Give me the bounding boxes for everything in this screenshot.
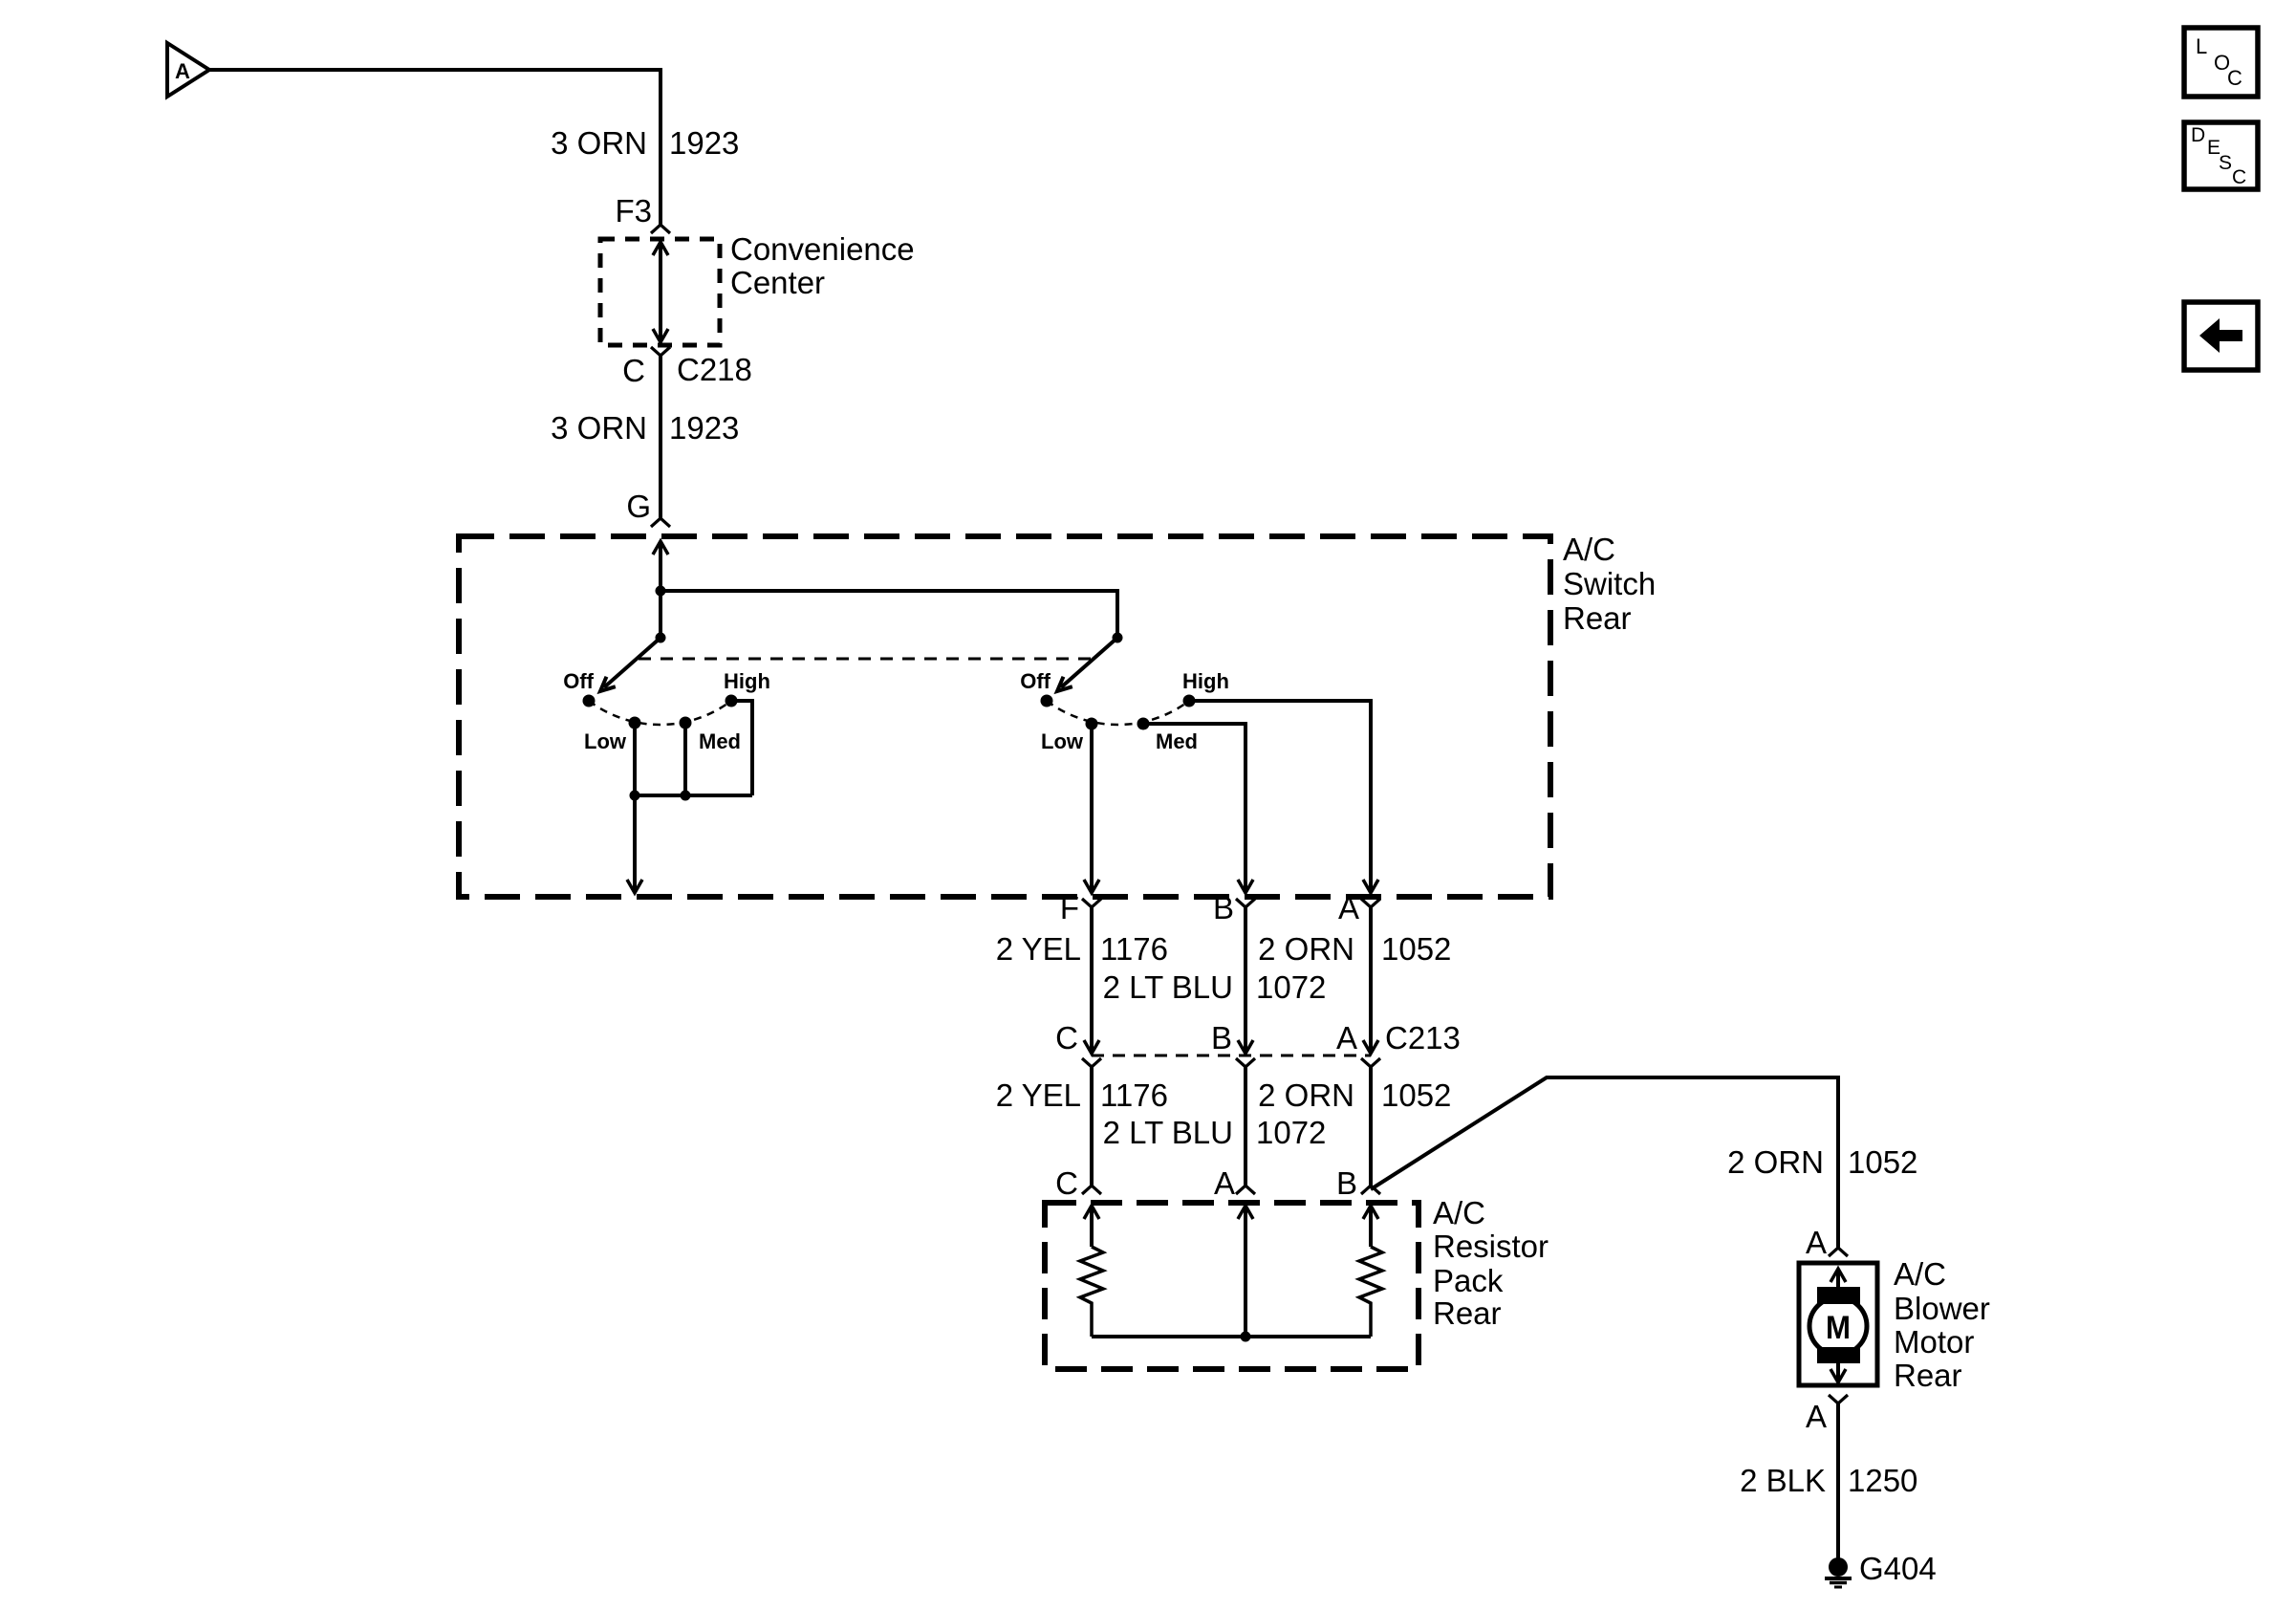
svg-text:1250: 1250: [1848, 1463, 1917, 1498]
svg-text:1052: 1052: [1848, 1144, 1917, 1180]
svg-text:1923: 1923: [669, 125, 739, 161]
svg-text:1052: 1052: [1381, 931, 1451, 967]
svg-text:C: C: [622, 353, 645, 388]
svg-text:C: C: [1055, 1020, 1078, 1055]
svg-text:G: G: [626, 489, 651, 524]
svg-text:2 YEL: 2 YEL: [996, 1077, 1081, 1113]
svg-text:F: F: [1060, 890, 1079, 925]
svg-text:A/C: A/C: [1894, 1256, 1946, 1292]
svg-text:Center: Center: [730, 265, 825, 300]
svg-text:B: B: [1213, 890, 1234, 925]
svg-text:1052: 1052: [1381, 1077, 1451, 1113]
svg-text:Resistor: Resistor: [1433, 1229, 1549, 1264]
svg-text:Off: Off: [1020, 669, 1051, 693]
svg-text:F3: F3: [615, 193, 652, 228]
svg-text:C: C: [1055, 1165, 1078, 1201]
svg-text:Low: Low: [1041, 729, 1084, 753]
svg-text:A/C: A/C: [1433, 1195, 1485, 1230]
svg-text:C218: C218: [677, 352, 752, 387]
svg-text:2 YEL: 2 YEL: [996, 931, 1081, 967]
svg-text:A/C: A/C: [1563, 532, 1615, 567]
svg-text:A: A: [1214, 1165, 1235, 1201]
svg-text:1072: 1072: [1256, 1115, 1326, 1150]
svg-text:Rear: Rear: [1894, 1358, 1962, 1393]
svg-text:Blower: Blower: [1894, 1291, 1990, 1326]
svg-text:3 ORN: 3 ORN: [551, 410, 647, 446]
svg-text:A: A: [1806, 1225, 1827, 1260]
svg-text:1923: 1923: [669, 410, 739, 446]
svg-text:1176: 1176: [1100, 931, 1168, 967]
svg-text:B: B: [1336, 1165, 1357, 1201]
svg-text:Med: Med: [699, 729, 741, 753]
svg-text:Convenience: Convenience: [730, 231, 915, 267]
svg-text:Low: Low: [584, 729, 627, 753]
svg-text:2 ORN: 2 ORN: [1258, 1077, 1354, 1113]
svg-text:D: D: [2191, 124, 2205, 146]
svg-text:M: M: [1826, 1310, 1851, 1346]
svg-text:A: A: [175, 59, 190, 83]
svg-text:L: L: [2196, 34, 2207, 58]
svg-text:Rear: Rear: [1433, 1295, 1502, 1331]
svg-text:2 LT BLU: 2 LT BLU: [1103, 969, 1233, 1005]
svg-text:A: A: [1806, 1399, 1827, 1434]
svg-text:G404: G404: [1859, 1551, 1937, 1586]
svg-text:2 BLK: 2 BLK: [1740, 1463, 1826, 1498]
svg-text:C213: C213: [1385, 1020, 1461, 1055]
svg-text:S: S: [2219, 152, 2232, 174]
svg-text:High: High: [724, 669, 770, 693]
svg-text:A: A: [1338, 890, 1359, 925]
svg-text:1072: 1072: [1256, 969, 1326, 1005]
svg-text:1176: 1176: [1100, 1077, 1168, 1113]
svg-text:Med: Med: [1156, 729, 1198, 753]
svg-text:3 ORN: 3 ORN: [551, 125, 647, 161]
svg-text:A: A: [1336, 1020, 1357, 1055]
svg-text:2 ORN: 2 ORN: [1258, 931, 1354, 967]
svg-text:Pack: Pack: [1433, 1263, 1504, 1298]
svg-text:2 LT BLU: 2 LT BLU: [1103, 1115, 1233, 1150]
svg-text:C: C: [2232, 166, 2246, 188]
svg-text:2 ORN: 2 ORN: [1727, 1144, 1824, 1180]
svg-text:Rear: Rear: [1563, 600, 1632, 636]
svg-text:Switch: Switch: [1563, 566, 1656, 601]
svg-text:C: C: [2227, 66, 2242, 90]
svg-text:High: High: [1182, 669, 1229, 693]
svg-text:Motor: Motor: [1894, 1324, 1974, 1360]
svg-text:B: B: [1211, 1020, 1232, 1055]
svg-text:Off: Off: [563, 669, 594, 693]
